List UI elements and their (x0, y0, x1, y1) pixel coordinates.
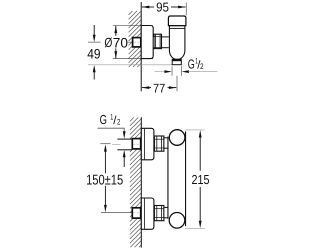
svg-text:Ø: Ø (104, 35, 112, 50)
svg-text:G: G (100, 112, 107, 127)
union nut top view (154, 34, 162, 48)
connection pipe top view (153, 37, 169, 48)
dimension dia70 (115, 26, 117, 36)
in-wall square union top view (133, 38, 141, 47)
svg-text:95: 95 (156, 0, 169, 15)
extension line 150 bottom into nipple (101, 212, 132, 214)
dimension 49 (93, 25, 95, 36)
union nut bottom fitting (154, 206, 164, 221)
dimension 95 (185, 3, 187, 16)
supply pipe bottom view (117, 139, 131, 150)
svg-text:77: 77 (153, 81, 165, 95)
washer top fitting (164, 138, 168, 148)
outlet extension lines (171, 66, 173, 76)
valve cap top view (168, 16, 186, 26)
rail bottom ball (169, 213, 185, 229)
svg-text:150±15: 150±15 (86, 173, 123, 189)
wall line top view (140, 2, 142, 91)
shower rail tube (168, 133, 185, 223)
wall line bottom view (140, 117, 142, 247)
wall hatching top view (129, 11, 142, 67)
rail top ball (169, 130, 185, 146)
escutcheon top fitting (141, 128, 154, 160)
svg-text:49: 49 (87, 47, 101, 62)
svg-text:70: 70 (113, 35, 129, 50)
dimension 77 (176, 76, 178, 92)
union nut top fitting (154, 136, 164, 151)
svg-text:215: 215 (192, 172, 210, 187)
svg-text:2: 2 (117, 117, 121, 126)
in-wall square union top fitting bottom view (132, 139, 140, 149)
washer bottom fitting (164, 207, 168, 217)
svg-text:G: G (188, 57, 195, 72)
escutcheon bottom fitting (141, 198, 154, 229)
valve body top view (169, 26, 185, 60)
dimension 215 (185, 129, 205, 131)
svg-text:2: 2 (200, 62, 204, 71)
in-wall square union bottom fitting (132, 208, 140, 218)
G1/2 leader bottom view (98, 128, 125, 132)
G1/2 callout arrows top view (155, 71, 166, 73)
escutcheon rosette top view (141, 26, 153, 59)
dimension 150+-15 (100, 143, 110, 145)
extension line pipe centerline stubs (88, 41, 101, 43)
wall hatching bottom view (130, 118, 141, 248)
rail side lines (167, 137, 169, 219)
extension lines for dia70 (113, 25, 153, 27)
outlet fitting top view (172, 59, 181, 64)
extension line outlet-bottom level y=64.9 (88, 64, 172, 66)
